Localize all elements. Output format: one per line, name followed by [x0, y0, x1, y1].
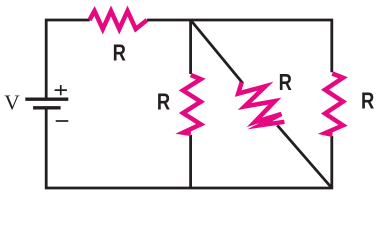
wire : diagonal upper segment — [191, 20, 243, 83]
svg-text:R: R — [361, 89, 374, 114]
wire : middle branch upper segment — [189, 20, 192, 74]
wire : top wire from R1 to top-right corner down to R4 — [147, 20, 332, 72]
battery plus sign — [55, 85, 67, 95]
resistor R3 (diagonal) — [238, 82, 284, 125]
svg-text:V: V — [4, 91, 20, 115]
wire : diagonal lower segment — [277, 125, 332, 188]
svg-text:R: R — [157, 89, 170, 114]
svg-text:R: R — [113, 41, 126, 66]
resistor R2 (middle vertical) — [183, 75, 201, 134]
wire : middle branch lower segment — [189, 135, 192, 188]
battery V : negative short plate — [33, 106, 61, 109]
resistor R4 (right vertical) — [325, 74, 343, 135]
battery minus sign — [56, 120, 69, 122]
svg-text:R: R — [279, 70, 292, 95]
wire : left branch up + top-left corner + top wire into R1 — [46, 20, 90, 98]
resistor R1 (top horizontal) — [90, 11, 148, 29]
wire : R4 bottom to bottom-right corner, bottom wire, up to battery minus plate — [46, 110, 332, 189]
battery V : positive long plate — [25, 97, 68, 100]
